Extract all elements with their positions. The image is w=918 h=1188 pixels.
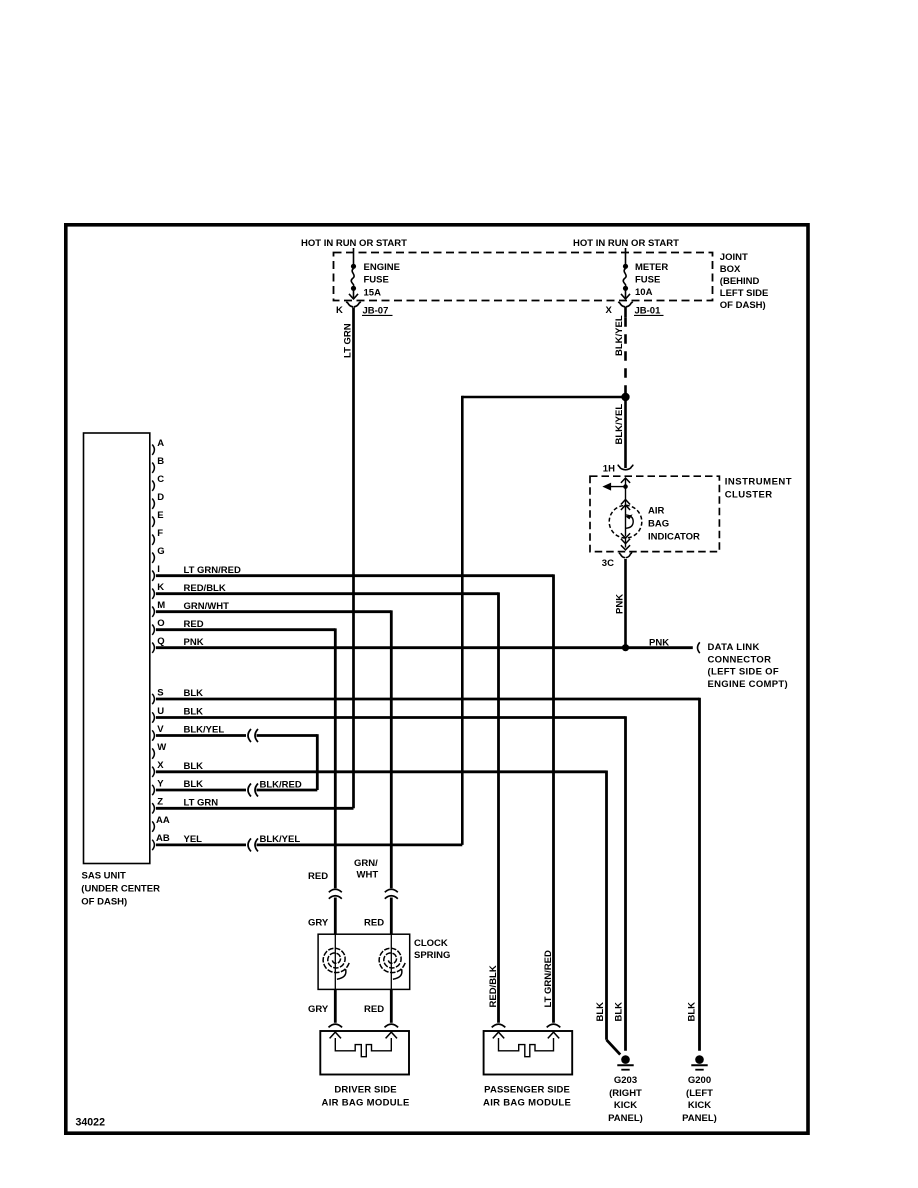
svg-text:GRY: GRY [308,917,329,928]
wire from hot feed into meter fuse [625,248,627,266]
svg-text:LEFT SIDE: LEFT SIDE [720,288,769,299]
svg-text:X: X [606,305,613,316]
wire LT GRN vertical from JB-07 to pin Z row [352,308,355,809]
SAS pin O connector [152,625,154,635]
svg-text:KICK: KICK [614,1100,637,1111]
svg-text:Y: Y [157,778,164,789]
chevrons out of indicator [621,533,630,544]
svg-text:W: W [157,742,166,753]
svg-text:JOINT: JOINT [720,252,748,263]
svg-text:BLK: BLK [184,779,204,790]
svg-text:AIR: AIR [648,505,665,516]
svg-text:O: O [157,618,164,629]
svg-text:YEL: YEL [184,834,203,845]
passenger module squib [499,1038,554,1057]
svg-text:E: E [157,510,163,521]
wire pin AB YEL [156,844,246,847]
wire pin M GRN/WHT [156,610,391,613]
SAS pin D connector [152,499,154,509]
SAS pin K connector [152,589,154,599]
svg-text:K: K [336,305,343,316]
wire pin O RED [156,628,335,631]
ground G200 [695,1055,704,1064]
svg-text:CLOCK: CLOCK [414,938,448,949]
svg-text:BLK: BLK [184,761,204,772]
svg-text:Z: Z [157,797,163,808]
svg-text:BLK: BLK [184,707,204,718]
wire GRY clock spring to driver module [334,989,337,1022]
svg-text:GRN/WHT: GRN/WHT [184,601,230,612]
svg-text:U: U [157,706,164,717]
svg-text:PANEL): PANEL) [682,1113,717,1124]
SAS pin Q connector [152,643,154,653]
wire pin Z LT GRN [156,807,354,810]
wire PNK from 3C to data link splice [624,559,627,648]
driver module connector arcs [329,1024,343,1027]
svg-text:C: C [157,474,164,485]
svg-text:G: G [157,546,164,557]
wire junction to indicator [625,487,627,505]
wire RED/BLK vertical to passenger module [497,592,500,1022]
SAS pin F connector [152,535,154,545]
connector 3C female funnel [619,552,632,557]
wire BLK/YEL dashed from JB-01 to junction [624,307,627,317]
svg-text:METER: METER [635,262,668,273]
SAS pin B connector [152,463,154,473]
SAS pin M connector [152,607,154,617]
svg-text:JB-01: JB-01 [635,305,662,316]
svg-text:OF DASH): OF DASH) [720,300,766,311]
wire from hot feed into engine fuse [353,248,355,266]
svg-text:PANEL): PANEL) [608,1113,643,1124]
connector 1H female cup [618,465,633,470]
svg-text:PNK: PNK [614,594,625,614]
SAS pin W connector [152,748,154,758]
svg-text:ENGINE COMPT): ENGINE COMPT) [708,679,788,690]
wire BLK vertical to G203 splice [605,771,608,1040]
svg-text:AIR BAG MODULE: AIR BAG MODULE [322,1097,410,1108]
svg-text:15A: 15A [364,288,382,299]
svg-text:GRY: GRY [308,1004,329,1015]
svg-text:RED/BLK: RED/BLK [184,583,226,594]
wire GRN/WHT vertical to clock spring [390,610,393,888]
svg-text:(LEFT: (LEFT [686,1088,713,1099]
inline connector on Y wire [248,784,258,797]
wire pin U BLK [156,716,626,719]
chevrons into indicator [621,500,630,511]
svg-text:(BEHIND: (BEHIND [720,276,760,287]
wire BLK/RED after connector [257,789,318,792]
svg-text:SAS UNIT: SAS UNIT [82,871,127,882]
svg-text:KICK: KICK [688,1100,711,1111]
svg-text:S: S [157,687,163,698]
svg-text:LT GRN: LT GRN [342,323,353,358]
SAS pin U connector [152,712,154,722]
meter fuse element [623,264,628,269]
data link splice node [622,644,629,651]
svg-text:10A: 10A [635,287,653,298]
SAS pin AB connector [152,840,154,850]
svg-text:PASSENGER SIDE: PASSENGER SIDE [484,1084,570,1095]
SAS pin A connector [152,445,154,455]
svg-text:F: F [157,528,163,539]
wire RED clock spring to driver module [390,989,393,1022]
svg-text:34022: 34022 [76,1117,106,1129]
svg-text:BLK/RED: BLK/RED [260,779,302,790]
SAS pin AA connector [152,821,154,831]
SAS pin S connector [152,694,154,704]
wire BLK vertical to G203 [624,716,627,1051]
SAS pin G connector [152,553,154,563]
svg-text:BLK: BLK [686,1002,697,1022]
svg-text:(UNDER CENTER: (UNDER CENTER [81,884,160,895]
svg-text:(LEFT SIDE OF: (LEFT SIDE OF [708,667,779,678]
wire branch BLK/YEL to pin AB column [462,396,625,399]
wire GRY to clock spring [334,898,337,935]
diagram border frame [66,225,808,1133]
svg-text:INDICATOR: INDICATOR [648,531,700,542]
svg-text:BOX: BOX [720,264,741,275]
air bag indicator lamp circle [609,505,642,538]
svg-text:GRN/: GRN/ [354,858,378,869]
clock spring left coil [323,948,349,972]
svg-text:(RIGHT: (RIGHT [609,1088,642,1099]
connector JB-01 female funnel [618,302,632,307]
svg-text:SPRING: SPRING [414,950,450,961]
svg-text:OF DASH): OF DASH) [81,897,127,908]
svg-text:G203: G203 [614,1075,637,1086]
svg-text:RED: RED [308,871,328,882]
SAS pin I connector [152,571,154,581]
svg-text:RED: RED [184,619,204,630]
svg-text:ENGINE: ENGINE [364,262,400,273]
SAS pin X connector [152,767,154,777]
svg-text:JB-07: JB-07 [363,305,389,316]
svg-text:BLK: BLK [595,1002,606,1022]
svg-text:DRIVER SIDE: DRIVER SIDE [334,1084,396,1095]
svg-text:FUSE: FUSE [364,275,389,286]
wire LT GRN/RED vertical to passenger module [552,574,555,1022]
inline connector on V wire [248,729,258,742]
svg-text:CONNECTOR: CONNECTOR [708,654,772,665]
svg-text:BLK/YEL: BLK/YEL [614,404,625,445]
svg-text:BLK/YEL: BLK/YEL [614,315,625,356]
wire BLK/YEL solid from junction to instrument cluster 1H [624,397,627,468]
wire RED to clock spring [390,898,393,935]
wire RED vertical to clock spring [334,628,337,888]
wire pin Q PNK to data link [156,646,693,649]
svg-text:3C: 3C [602,558,614,569]
passenger module connector arcs [492,1024,506,1027]
connector JB-07 female funnel [346,302,360,307]
svg-text:BLK: BLK [614,1002,625,1022]
svg-text:V: V [157,724,164,735]
cluster internal junction dot [623,484,628,489]
svg-text:K: K [157,582,164,593]
clock spring box [318,934,410,989]
wire pin Y BLK [156,789,246,792]
inline connector on driver RED wire [329,889,342,898]
wire pin S BLK [156,698,700,701]
SAS unit box [84,433,150,864]
connector to data link connector [698,642,700,653]
passenger air bag module box [484,1031,573,1075]
svg-text:RED/BLK: RED/BLK [488,965,499,1007]
junction node BLK/YEL splice [621,393,629,401]
svg-text:AIR BAG MODULE: AIR BAG MODULE [483,1097,571,1108]
svg-text:WHT: WHT [357,869,379,880]
svg-text:BAG: BAG [648,518,669,529]
SAS pin Y connector [152,785,154,795]
svg-text:LT GRN: LT GRN [184,798,219,809]
svg-text:M: M [157,600,165,611]
inline connector on AB wire [248,838,258,851]
svg-text:I: I [157,564,160,575]
svg-text:BLK: BLK [184,688,204,699]
wire BLK vertical to G200 [698,698,701,1051]
svg-text:DATA LINK: DATA LINK [708,642,760,653]
wire pin I LT GRN/RED [156,574,554,577]
branch arrow to other circuits [609,486,626,488]
joint box JB dashed outline [334,253,713,301]
svg-text:LT GRN/RED: LT GRN/RED [543,950,554,1007]
driver module squib [335,1038,391,1057]
svg-text:X: X [157,760,164,771]
wire pin K RED/BLK [156,592,499,595]
engine fuse element [351,264,356,269]
wire pin X BLK [156,770,607,773]
SAS pin V connector [152,730,154,740]
wire pin V BLK/YEL [156,734,246,737]
SAS pin C connector [152,481,154,491]
svg-text:G200: G200 [688,1075,711,1086]
driver air bag module box [320,1031,409,1075]
svg-text:INSTRUMENT: INSTRUMENT [725,477,792,488]
svg-text:BLK/YEL: BLK/YEL [184,725,225,736]
svg-text:B: B [157,456,164,467]
ground G203 [621,1055,630,1064]
svg-text:D: D [157,492,164,503]
svg-text:BLK/YEL: BLK/YEL [260,834,301,845]
svg-text:1H: 1H [603,464,615,475]
wire to connector 3C [625,538,627,548]
svg-text:LT GRN/RED: LT GRN/RED [184,565,241,576]
SAS pin E connector [152,517,154,527]
svg-text:HOT IN RUN OR START: HOT IN RUN OR START [573,238,679,249]
inline connector on driver GRN/WHT wire [385,889,398,898]
svg-text:HOT IN RUN OR START: HOT IN RUN OR START [301,238,407,249]
instrument cluster dashed box [590,476,719,551]
svg-text:AA: AA [156,815,170,826]
male pin arrow at 3C [621,545,630,550]
clock spring right coil [379,948,405,972]
lamp filament symbol [625,506,627,537]
svg-text:RED: RED [364,917,384,928]
SAS pin Z connector [152,803,154,813]
svg-text:CLUSTER: CLUSTER [725,489,773,500]
svg-text:FUSE: FUSE [635,275,660,286]
svg-text:AB: AB [156,833,170,844]
male pin arrow into cluster [621,478,630,483]
wire BLK/YEL after connector [257,844,463,847]
wire V to Y loop [257,734,318,737]
svg-text:RED: RED [364,1004,384,1015]
svg-text:PNK: PNK [184,637,204,648]
svg-text:Q: Q [157,636,164,647]
svg-text:A: A [157,438,164,449]
